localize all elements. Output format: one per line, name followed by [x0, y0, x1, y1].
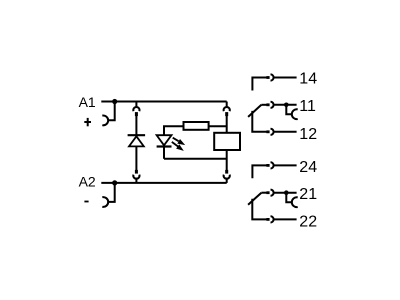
wire LED cathode down	[163, 147, 165, 159]
wire A2 rail	[101, 182, 226, 184]
wire row 11 clamp drop	[286, 105, 292, 114]
LED V2 cathode bar	[157, 145, 172, 147]
plug socket contact row 24	[271, 162, 274, 168]
plug socket contact row 12	[271, 129, 274, 135]
terminal label 24	[299, 159, 317, 176]
LED V2 emission arrow 1	[173, 138, 186, 145]
node row 11 junction	[284, 103, 289, 108]
plug pin contact row 21	[266, 191, 269, 194]
contact 12 lead	[252, 111, 266, 132]
wire coil branch top stub	[226, 102, 228, 109]
wire coil branch bottom stub	[226, 178, 228, 183]
plug pin contact diode top	[135, 112, 138, 116]
wire row 21 clamp drop	[286, 193, 292, 203]
svg-text:22: 22	[299, 213, 317, 230]
contact arm set 2 (pole 21)	[248, 193, 261, 205]
wire row 14	[273, 77, 296, 79]
wire A1 terminal drop	[108, 102, 114, 121]
svg-text:24: 24	[299, 159, 317, 176]
terminal label 22	[299, 213, 317, 230]
terminal label 14	[299, 70, 317, 87]
relay coil K1	[214, 133, 240, 150]
wire diode branch bottom stub	[135, 178, 137, 183]
plug socket contact coil top	[224, 107, 230, 111]
plug socket contact diode top	[133, 107, 139, 111]
terminal label 12	[299, 126, 317, 143]
plug socket contact row 22	[271, 216, 274, 222]
plug pin contact coil bottom	[225, 170, 228, 174]
node A2 junction	[112, 180, 117, 185]
contact arm set 1 (pole 11)	[248, 105, 261, 117]
contact 24 fixed lead	[252, 165, 266, 178]
plug pin contact coil top	[225, 112, 228, 116]
wire diode anode	[135, 116, 137, 136]
svg-text:11: 11	[299, 98, 316, 115]
wire LED loop bottom	[164, 158, 227, 160]
terminal label A2	[79, 174, 96, 190]
wire arm stub row 11	[261, 104, 266, 106]
svg-text:A1: A1	[79, 94, 96, 110]
plug socket contact row 11	[271, 102, 274, 108]
svg-text:12: 12	[299, 126, 317, 143]
clamp terminal 21	[292, 197, 298, 207]
diode V1 triangle	[129, 136, 144, 146]
plug pin contact row 11	[266, 103, 269, 106]
wire arm stub row 21	[261, 192, 266, 194]
plug socket contact row 14	[271, 74, 274, 80]
svg-text:21: 21	[299, 186, 317, 203]
clamp terminal A1	[102, 116, 108, 126]
terminal label A1	[79, 94, 96, 110]
svg-text:14: 14	[299, 70, 317, 87]
terminal label 11	[299, 98, 316, 115]
terminal label 21	[299, 186, 317, 203]
node row 21 junction	[284, 190, 289, 195]
wire A2 terminal drop	[108, 183, 114, 202]
clamp terminal A2	[102, 197, 108, 207]
wire row 21	[273, 192, 296, 194]
wire row 12	[273, 131, 296, 133]
plug pin contact row 14	[266, 76, 269, 79]
resistor R1	[184, 122, 209, 130]
wire LED loop top	[164, 126, 184, 135]
wire coil top	[226, 116, 228, 133]
wire A1 rail	[101, 101, 226, 103]
plug pin contact row 12	[266, 130, 269, 133]
wire row 22	[273, 218, 296, 220]
svg-text:A2: A2	[79, 174, 96, 190]
wire diode branch top stub	[135, 102, 137, 109]
polarity label -	[84, 201, 88, 203]
wire diode cathode	[135, 146, 137, 170]
wire coil bottom	[226, 150, 228, 170]
wire row 11	[273, 104, 296, 106]
contact 22 lead	[252, 199, 266, 220]
plug pin contact diode bottom	[135, 170, 138, 174]
plug pin contact row 24	[266, 164, 269, 167]
node A1 junction	[112, 99, 117, 104]
plug socket contact diode bottom	[133, 175, 139, 179]
plug socket contact row 21	[271, 190, 274, 196]
LED V2 emission arrow 2	[172, 142, 184, 151]
plug socket contact coil bottom	[224, 175, 230, 179]
wire row 24	[273, 164, 296, 166]
wire resistor to coil line	[209, 125, 227, 127]
diode V1 cathode bar	[128, 134, 146, 136]
clamp terminal 11	[292, 109, 298, 119]
contact 14 fixed lead	[252, 78, 266, 91]
plug pin contact row 22	[266, 218, 269, 221]
polarity label +	[84, 118, 91, 126]
LED V2 triangle	[157, 135, 172, 145]
